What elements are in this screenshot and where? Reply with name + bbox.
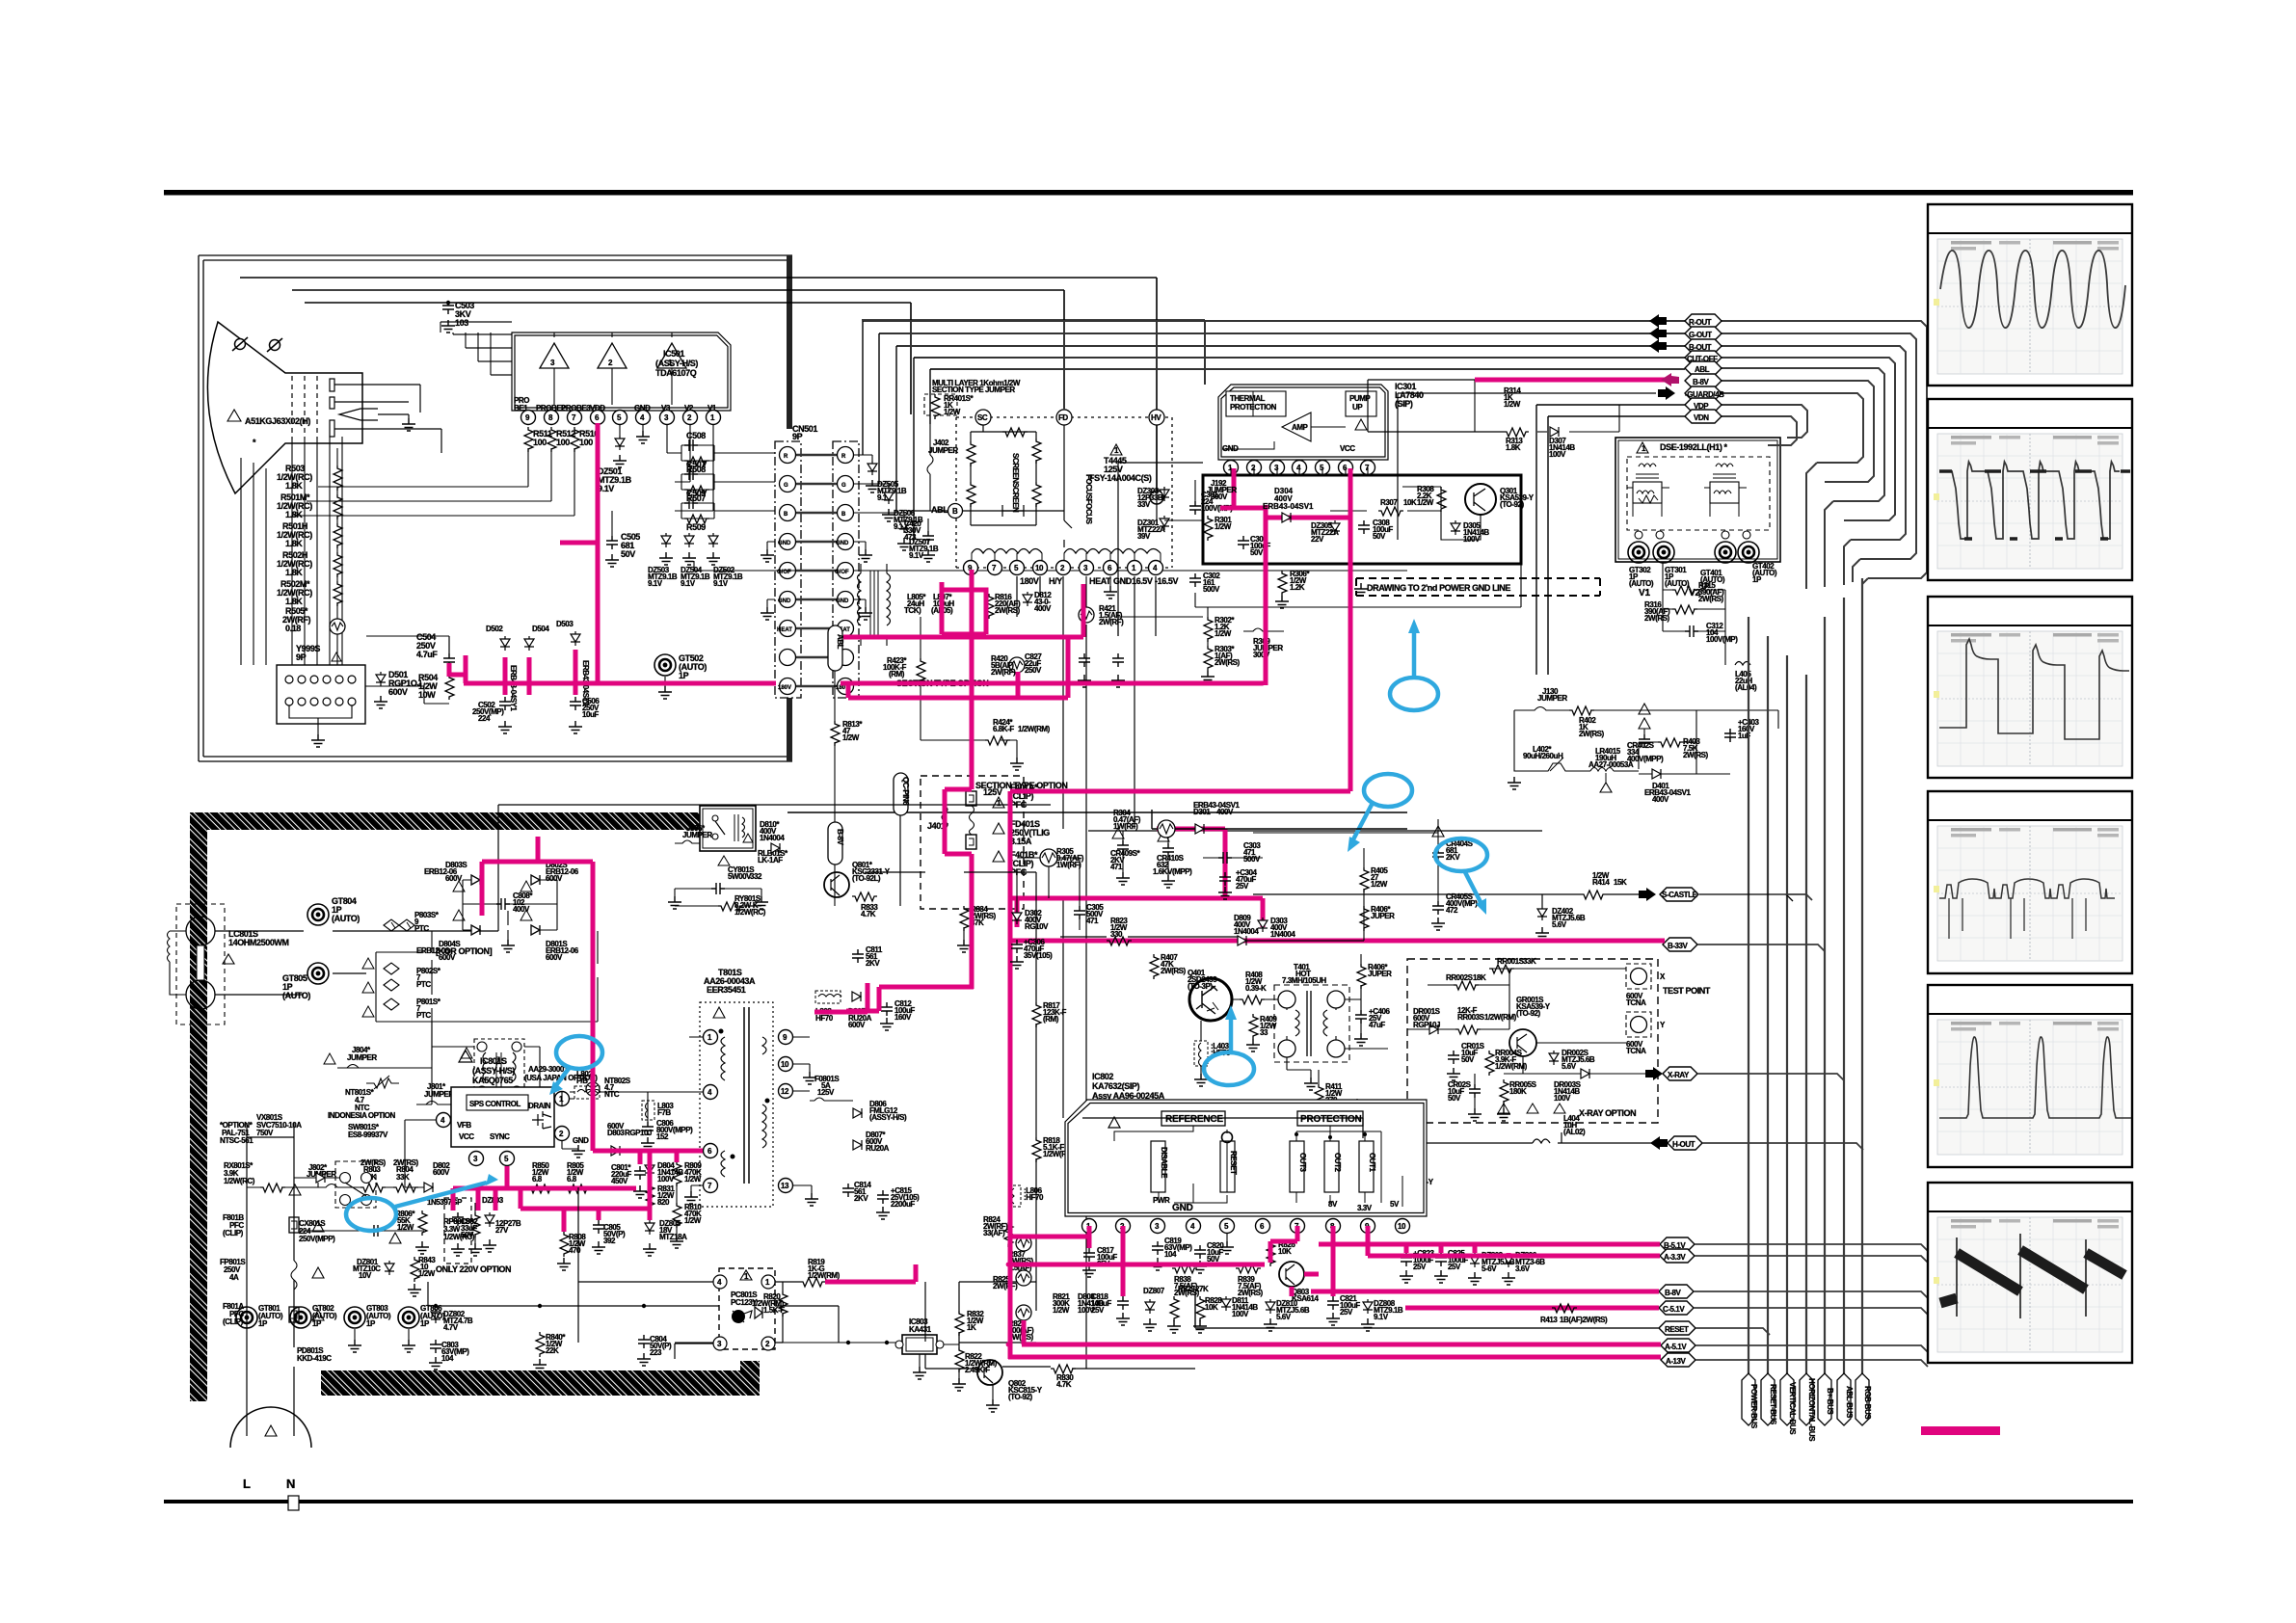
- wire pink pin8: [1331, 1226, 1336, 1296]
- svg-text:1/2W(RM): 1/2W(RM): [1484, 1013, 1517, 1022]
- pill ABL: [1685, 361, 1722, 375]
- svg-text:300V: 300V: [1211, 492, 1228, 501]
- svg-text:(AL04): (AL04): [1735, 683, 1757, 692]
- pill B-8V low: [1659, 1285, 1694, 1298]
- svg-text:SCREENSCREEN: SCREENSCREEN: [1011, 453, 1020, 513]
- svg-text:(TO-3P): (TO-3P): [1188, 982, 1213, 991]
- wire pink pin9: [1366, 1226, 1371, 1256]
- junction dots: [970, 635, 974, 640]
- svg-text:400V: 400V: [1216, 808, 1234, 816]
- svg-text:4A: 4A: [229, 1273, 239, 1282]
- ground sym: [1354, 583, 1368, 596]
- svg-text:1P: 1P: [1752, 575, 1762, 584]
- resistor R826: [1267, 1241, 1275, 1266]
- annotation ellipse drain: [556, 1036, 602, 1069]
- resistor R839: [1236, 1264, 1261, 1273]
- capacitor C817: [1083, 1248, 1095, 1262]
- svg-text:GND: GND: [1172, 1203, 1193, 1213]
- resistor R833: [852, 892, 877, 901]
- svg-text:JUMPER: JUMPER: [1537, 694, 1567, 703]
- svg-text:33: 33: [1260, 1028, 1268, 1037]
- svg-text:(CLIP): (CLIP): [223, 1229, 244, 1237]
- jumper J806: [675, 840, 700, 843]
- capacitor C820: [1194, 1245, 1206, 1259]
- svg-text:25V: 25V: [1413, 1263, 1427, 1271]
- resistor R306: [1278, 571, 1287, 596]
- svg-text:600V: 600V: [388, 687, 408, 697]
- waveform s-castle: [1939, 879, 2115, 898]
- resistor R406 jumper: [1357, 964, 1366, 989]
- capacitor C306: [1011, 940, 1023, 953]
- svg-text:6.8K-F: 6.8K-F: [993, 725, 1014, 733]
- svg-text:HF70: HF70: [815, 1014, 834, 1023]
- svg-text:ABL-BUS: ABL-BUS: [1845, 1386, 1854, 1419]
- svg-text:1P: 1P: [420, 1319, 430, 1328]
- terminal GT502: [654, 654, 676, 676]
- capacitor C806: [642, 1122, 654, 1135]
- capacitor CR405S: [1432, 901, 1444, 915]
- zener DZ802: [431, 1309, 441, 1323]
- RC ladder C508/R508: [675, 445, 775, 461]
- svg-text:1W(RF): 1W(RF): [1113, 822, 1138, 831]
- svg-text:JUPER: JUPER: [1371, 912, 1395, 920]
- svg-text:4.7V: 4.7V: [443, 1323, 459, 1332]
- diode D802: [424, 1183, 433, 1192]
- wire S-CASTLE net: [1253, 894, 1619, 906]
- capacitor C808: [496, 898, 510, 910]
- svg-text:100V: 100V: [1549, 450, 1566, 459]
- inductor L808: [815, 991, 841, 1003]
- CRT cathode arrow: [339, 409, 378, 420]
- arrow R-OUT: [1649, 314, 1667, 328]
- svg-text:400V: 400V: [1652, 795, 1669, 804]
- resistor R850 pink: [528, 1184, 553, 1193]
- wire cluster: [1017, 858, 1080, 930]
- inductor L403: [1194, 1041, 1208, 1066]
- svg-text:C-5.1V: C-5.1V: [1663, 1305, 1685, 1314]
- pill B-8V: [1685, 374, 1722, 387]
- svg-text:A-3.3V: A-3.3V: [1664, 1253, 1686, 1262]
- mains choke LC801S: [176, 904, 225, 1024]
- svg-text:2KV: 2KV: [1446, 853, 1460, 862]
- svg-text:PTC: PTC: [416, 980, 431, 989]
- svg-text:2W(RS): 2W(RS): [1698, 595, 1724, 603]
- diode D811: [1221, 1296, 1231, 1311]
- svg-text:OUT1: OUT1: [1368, 1153, 1376, 1173]
- svg-text:2W(RS): 2W(RS): [1215, 658, 1241, 667]
- svg-text:4.7K: 4.7K: [1056, 1380, 1072, 1389]
- svg-text:1P: 1P: [258, 1319, 268, 1328]
- resistor R816: [985, 594, 994, 619]
- resistor R407: [1150, 954, 1159, 979]
- resistor R803: [360, 1184, 386, 1192]
- arrow G-OUT: [1649, 327, 1667, 340]
- wire rail drops: [441, 322, 491, 375]
- svg-text:1/2W: 1/2W: [684, 1175, 702, 1184]
- capacitor C805: [593, 1220, 604, 1234]
- svg-text:10: 10: [1035, 564, 1044, 572]
- pill B-33V: [1663, 938, 1697, 951]
- svg-text:GND: GND: [778, 599, 791, 604]
- svg-text:2W(RS): 2W(RS): [1644, 614, 1670, 623]
- svg-text:KA7632(SIP): KA7632(SIP): [1092, 1081, 1140, 1091]
- svg-text:2W(RF): 2W(RF): [1099, 618, 1124, 626]
- wire O/OF return: [694, 561, 1407, 571]
- line transformer LX801S: [474, 1039, 524, 1099]
- svg-text:ABL: ABL: [1695, 365, 1710, 374]
- svg-text:RESET: RESET: [1229, 1151, 1238, 1175]
- svg-text:1P: 1P: [366, 1319, 376, 1328]
- wire pink B-8V low: [1311, 1290, 1659, 1294]
- svg-text:R-OUT: R-OUT: [1689, 318, 1712, 327]
- wire k: [1060, 937, 1364, 941]
- svg-text:100: 100: [556, 438, 570, 447]
- svg-text:SECTION TYPE JUMPER: SECTION TYPE JUMPER: [932, 386, 1015, 394]
- oscilloscope box 4: [1928, 791, 2132, 973]
- svg-text:9.1V: 9.1V: [648, 579, 663, 588]
- capacitor C504: [448, 636, 450, 653]
- svg-text:25V: 25V: [1448, 1263, 1461, 1271]
- svg-text:33V: 33V: [1137, 500, 1151, 509]
- pill RGB-BUS vertical: [1855, 1373, 1869, 1425]
- svg-text:RGP10J: RGP10J: [625, 1129, 652, 1137]
- svg-text:RG10V: RG10V: [1025, 922, 1049, 931]
- wire: [337, 1022, 540, 1104]
- svg-text:1N4004: 1N4004: [1270, 930, 1295, 939]
- wire rail corner drops: [863, 321, 930, 542]
- resistor R414: [1581, 891, 1606, 899]
- svg-text:(AUTO): (AUTO): [282, 991, 310, 1000]
- transistor Q801: [824, 872, 849, 897]
- svg-text:REFERENCE: REFERENCE: [1165, 1114, 1223, 1125]
- svg-text:V2: V2: [1689, 588, 1700, 599]
- resistor R421 fusible: [1085, 576, 1087, 607]
- diode D303: [1258, 918, 1268, 932]
- svg-text:1/2W(RC): 1/2W(RC): [224, 1177, 255, 1185]
- resistor R408: [1240, 996, 1265, 1004]
- arrow H-OUT: [1650, 1136, 1668, 1150]
- wire: [294, 448, 574, 516]
- pill A-13V: [1661, 1353, 1695, 1367]
- diode D806: [853, 1108, 862, 1118]
- wire mains: [247, 1123, 294, 1436]
- resistor R313: [1504, 428, 1529, 437]
- wire below CRT section: [788, 811, 1407, 813]
- svg-text:GND: GND: [778, 541, 791, 546]
- svg-text:9P: 9P: [296, 652, 307, 662]
- svg-text:VERTICAL-BUS: VERTICAL-BUS: [1788, 1382, 1797, 1435]
- resistor R824: [1004, 1222, 1013, 1247]
- resistor RR004S: [1485, 1051, 1494, 1076]
- svg-text:D502: D502: [486, 625, 503, 633]
- annotation arrow hot-base: [1229, 1019, 1234, 1051]
- svg-text:47uF: 47uF: [1369, 1021, 1385, 1029]
- diode D807: [853, 1140, 862, 1150]
- label T4445: [1110, 444, 1122, 455]
- svg-text:VFB: VFB: [457, 1121, 471, 1130]
- svg-text:VDN: VDN: [1694, 413, 1709, 422]
- svg-text:27V: 27V: [495, 1226, 509, 1235]
- annotation arrow drain: [556, 1066, 571, 1085]
- diode D503: [571, 631, 580, 646]
- capacitor CR02S: [1469, 1084, 1481, 1098]
- oscilloscope box 2: [1928, 399, 2132, 580]
- svg-text:600V: 600V: [546, 953, 563, 962]
- resistor R405: [1360, 867, 1369, 892]
- node HV: [1149, 410, 1164, 425]
- svg-text:A-5.1V: A-5.1V: [1665, 1343, 1687, 1351]
- wire 12V rail: [428, 1282, 839, 1343]
- svg-text:223: 223: [650, 1348, 662, 1357]
- svg-text:1.8K: 1.8K: [285, 539, 303, 548]
- capacitor CR402S: [1639, 718, 1650, 734]
- svg-text:9.1V: 9.1V: [713, 579, 729, 588]
- arrow S-CASTLE: [1639, 888, 1656, 901]
- winding cluster V1: [1639, 464, 1656, 466]
- wire pink B+ to C812: [846, 987, 974, 1011]
- svg-text:0.39-K: 0.39-K: [1245, 984, 1267, 993]
- transformer DSE-1992LL module: [1615, 438, 1780, 562]
- pill B-OUT: [1685, 339, 1722, 353]
- svg-text:6.8: 6.8: [567, 1175, 577, 1184]
- wire IC301 area: [1118, 467, 1368, 646]
- wire bus elbow joins: [1806, 463, 1868, 594]
- svg-text:RR001S: RR001S: [1497, 957, 1525, 966]
- resistor R504: [445, 675, 454, 700]
- pill RESET: [1659, 1321, 1695, 1335]
- svg-text:G: G: [841, 483, 846, 489]
- svg-text:VCC: VCC: [459, 1132, 474, 1141]
- zener DZ803: [485, 1212, 494, 1227]
- wire top rail B: [305, 303, 911, 414]
- svg-text:GND: GND: [836, 599, 849, 604]
- svg-text:LK-1AF: LK-1AF: [758, 856, 783, 865]
- resistor RY801S: [718, 902, 743, 911]
- wire pink A-13V: [1008, 1355, 1661, 1360]
- pin row IC501: [521, 411, 536, 425]
- svg-text:180V: 180V: [778, 685, 791, 691]
- RC ladder C509/R509: [675, 503, 775, 519]
- svg-text:2W(RS): 2W(RS): [1174, 1289, 1200, 1297]
- terminal GT803: [344, 1307, 365, 1328]
- svg-text:UP: UP: [1352, 403, 1363, 412]
- svg-text:GND: GND: [836, 541, 849, 546]
- capacitor C408: [1351, 1108, 1363, 1122]
- svg-text:10: 10: [1398, 1222, 1406, 1231]
- svg-text:ONLY 220V OPTION: ONLY 220V OPTION: [436, 1264, 511, 1274]
- relay RL801S: [700, 806, 756, 851]
- svg-text:PROTECTION: PROTECTION: [1300, 1114, 1362, 1125]
- pill H-OUT: [1668, 1136, 1702, 1150]
- svg-text:473: 473: [904, 533, 917, 542]
- svg-text:332: 332: [750, 872, 762, 881]
- wire pink B-8V line: [1010, 380, 1679, 1359]
- svg-text:FD: FD: [1058, 413, 1068, 422]
- svg-text:50V: 50V: [1250, 548, 1264, 557]
- wire center verticals: [1152, 810, 1407, 829]
- inductor L404: [1533, 1139, 1550, 1143]
- PTC P801S: [384, 998, 399, 1010]
- svg-text:ERB43-04SV1: ERB43-04SV1: [1263, 502, 1314, 511]
- svg-text:5.6V: 5.6V: [1562, 1062, 1577, 1071]
- annotation ellipse hot-base: [1204, 1052, 1254, 1085]
- svg-text:10K: 10K: [1278, 1247, 1292, 1256]
- wire pink 180V right: [841, 683, 1263, 698]
- capacitor C811: [852, 949, 864, 963]
- pill VDP: [1685, 398, 1722, 412]
- label tube type: [227, 410, 241, 421]
- svg-text:X-RAY OPTION: X-RAY OPTION: [1579, 1108, 1636, 1118]
- resistor R840: [536, 1332, 545, 1357]
- capacitor C506: [570, 697, 581, 710]
- transistor GR001S: [1509, 1029, 1536, 1056]
- capacitor C802: [444, 1198, 471, 1264]
- svg-text:50V: 50V: [1373, 532, 1386, 541]
- svg-text:1/2W: 1/2W: [1592, 871, 1610, 880]
- wire top rail R: [240, 278, 1157, 490]
- top rule: [164, 190, 2133, 196]
- waveform pulse: [1939, 639, 2129, 739]
- svg-text:33(AF): 33(AF): [983, 1229, 1005, 1237]
- diode D504: [524, 636, 534, 651]
- oscilloscope box 3: [1928, 597, 2132, 778]
- pin6 T801: [704, 1144, 718, 1158]
- capacitor C823: [1401, 1253, 1412, 1266]
- zener DZ808: [1363, 1299, 1373, 1314]
- winding secondary right: [1064, 549, 1161, 554]
- svg-text:(AUTO): (AUTO): [1665, 579, 1690, 588]
- svg-text:RGP10J: RGP10J: [1413, 1021, 1440, 1029]
- resistor R830: [1051, 1365, 1076, 1373]
- svg-text:1/2W: 1/2W: [842, 733, 860, 742]
- svg-text:DSE-1992LL(H1) *: DSE-1992LL(H1) *: [1660, 442, 1728, 452]
- annotation ellipse hot-drive: [1435, 838, 1487, 871]
- svg-text:33K: 33K: [396, 1173, 410, 1182]
- waveform H-drive: [1939, 462, 2120, 539]
- wire fan from top pills: [1720, 321, 1927, 578]
- pill VERTICAL-BUS vertical: [1780, 1373, 1794, 1425]
- svg-text:10W: 10W: [418, 690, 436, 700]
- svg-text:V1: V1: [1639, 588, 1650, 599]
- wire: [899, 815, 901, 906]
- svg-text:9P: 9P: [792, 432, 803, 441]
- svg-text:A51KGJ63X02(H): A51KGJ63X02(H): [245, 416, 310, 426]
- resistor R315: [1672, 586, 1697, 595]
- svg-text:IC501: IC501: [663, 349, 684, 359]
- ground pin5: [1226, 1234, 1228, 1241]
- wire long mid: [1118, 564, 1521, 636]
- op-amp IC301 LA7840: [1218, 385, 1388, 460]
- svg-text:1.8K: 1.8K: [285, 597, 303, 606]
- resistor R831: [646, 1184, 654, 1209]
- svg-text:ABL: ABL: [836, 634, 844, 650]
- svg-text:250V(MPP): 250V(MPP): [299, 1235, 335, 1243]
- pill CUT-OFF: [1685, 351, 1722, 364]
- svg-text:(AL02): (AL02): [1563, 1128, 1586, 1136]
- svg-text:JUMPER: JUMPER: [347, 1053, 377, 1062]
- svg-text:100V: 100V: [1554, 1094, 1571, 1103]
- diode DR001S: [1429, 1024, 1438, 1034]
- svg-text:10K: 10K: [1403, 498, 1417, 507]
- zener DZ807: [1145, 1299, 1155, 1314]
- svg-text:35V(105): 35V(105): [1024, 951, 1053, 960]
- pin row IC802: [1082, 1219, 1097, 1234]
- svg-text:100: 100: [579, 438, 593, 447]
- svg-text:TCK): TCK): [904, 606, 921, 615]
- vertical output stage box: [1203, 475, 1521, 564]
- svg-text:400V: 400V: [1034, 604, 1052, 613]
- svg-text:500V: 500V: [1243, 855, 1261, 864]
- svg-text:50V: 50V: [621, 549, 635, 559]
- svg-text:C508: C508: [686, 431, 706, 440]
- annotation ellipse sync: [346, 1198, 396, 1231]
- wire H-OUT net: [1398, 1132, 1668, 1143]
- svg-text:DZ803: DZ803: [482, 1196, 504, 1205]
- svg-text:RR002S: RR002S: [1446, 973, 1474, 982]
- svg-text:TEST POINT: TEST POINT: [1663, 986, 1711, 996]
- oscilloscope box 5: [1928, 985, 2132, 1167]
- capacitor CR01S: [1448, 1051, 1459, 1064]
- zener DZ501: [619, 425, 621, 436]
- svg-text:13: 13: [781, 1182, 789, 1190]
- inductor L405: [1735, 662, 1750, 666]
- svg-text:470: 470: [569, 1246, 581, 1255]
- winding secondary left: [972, 549, 1042, 554]
- svg-text:JUMPER: JUMPER: [682, 831, 712, 839]
- pin12 T801: [779, 1084, 793, 1099]
- svg-text:2W(RF): 2W(RF): [991, 668, 1016, 677]
- svg-text:2W(RS): 2W(RS): [1238, 1289, 1264, 1297]
- svg-text:ES8-99937V: ES8-99937V: [348, 1131, 388, 1139]
- svg-text:R509: R509: [686, 522, 706, 532]
- node HV: [1150, 491, 1163, 504]
- svg-text:152: 152: [656, 1132, 669, 1141]
- zener DZ506: [854, 484, 889, 490]
- transistor Q803: [1279, 1262, 1304, 1287]
- wire top rail G: [292, 290, 1064, 409]
- bridge rect D801S: [531, 925, 540, 935]
- resistor RR002S: [1454, 981, 1479, 990]
- hatched barrier bottom bar: [321, 1370, 760, 1396]
- capacitor C803: [430, 1340, 441, 1353]
- zener DR002S: [1549, 1051, 1559, 1065]
- svg-text:F7B: F7B: [657, 1108, 671, 1117]
- svg-text:RU20A: RU20A: [866, 1144, 890, 1153]
- wire pink B+ loop: [942, 570, 986, 634]
- diode D809: [1238, 936, 1246, 945]
- capacitor C305: [1074, 906, 1085, 919]
- svg-text:3.3V: 3.3V: [1357, 1204, 1373, 1212]
- capacitor C818: [1117, 1296, 1129, 1310]
- pill B+-BUS vertical: [1818, 1373, 1831, 1425]
- resistor R809: [673, 1161, 681, 1186]
- svg-text:1B(AF)2W(RS): 1B(AF)2W(RS): [1560, 1316, 1608, 1324]
- pill QC-PIN6 vertical: [894, 773, 908, 815]
- terminal GT804: [307, 904, 329, 925]
- svg-text:50V: 50V: [1461, 1055, 1475, 1064]
- wire: [1088, 830, 1542, 832]
- svg-text:180K: 180K: [1509, 1087, 1527, 1096]
- pill A-3.3V: [1660, 1249, 1695, 1263]
- svg-text:(ASSY-H/S): (ASSY-H/S): [869, 1113, 907, 1122]
- svg-text:TCNA: TCNA: [1626, 1047, 1646, 1055]
- resistor R402: [1569, 706, 1594, 715]
- svg-text:10V: 10V: [359, 1271, 372, 1280]
- svg-text:S-CASTLE: S-CASTLE: [1662, 891, 1698, 899]
- svg-text:2200uF: 2200uF: [891, 1200, 915, 1209]
- svg-text:125V: 125V: [817, 1088, 835, 1097]
- svg-text:HORIZONTAL-BUS: HORIZONTAL-BUS: [1807, 1378, 1816, 1442]
